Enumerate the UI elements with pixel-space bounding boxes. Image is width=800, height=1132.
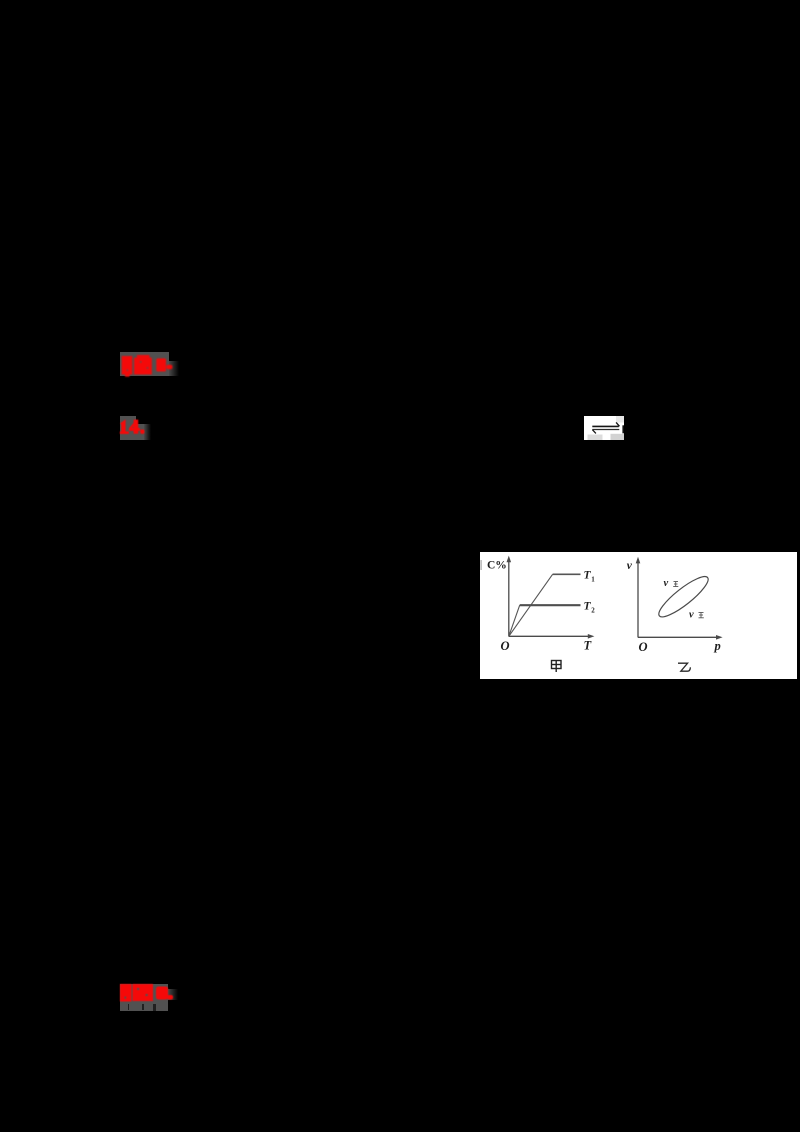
svg-text:T: T xyxy=(584,570,592,582)
curve T2 ramp xyxy=(509,605,520,636)
clipped character at right edge xyxy=(622,425,624,433)
letter C xyxy=(156,987,168,1000)
right chart y-axis xyxy=(637,561,639,638)
period xyxy=(167,995,173,1000)
white figure background xyxy=(480,552,797,679)
answer text 13 (red 答案:B.) xyxy=(118,350,178,380)
svg-text:v: v xyxy=(689,610,694,621)
left chart y-axis arrowhead xyxy=(507,556,512,563)
svg-text:2: 2 xyxy=(591,607,595,615)
svg-text:p: p xyxy=(714,639,721,653)
light gray corner patch xyxy=(616,416,624,423)
curve T2 plateau xyxy=(520,604,581,606)
right chart x-axis arrowhead xyxy=(716,635,723,640)
highlight tail question 14 xyxy=(144,424,151,440)
svg-text:T: T xyxy=(584,601,592,613)
white background of formula image xyxy=(584,416,624,440)
dark text marks in lower selection strip xyxy=(128,1004,130,1010)
equilibrium top arrow xyxy=(592,425,619,427)
left chart y-axis xyxy=(508,560,510,637)
char 案 blob xyxy=(133,984,154,1001)
char 答 blob xyxy=(122,356,133,375)
digit 1 xyxy=(120,419,125,433)
highlight tail answer 15 xyxy=(168,989,178,1000)
answer text 15 (red 答案:C.) xyxy=(118,980,180,1010)
char 案 blob xyxy=(134,358,152,375)
svg-text:1: 1 xyxy=(591,576,595,584)
question number 14 (red) xyxy=(118,416,150,438)
svg-text:v: v xyxy=(664,578,669,589)
figure image (two charts, white background) xyxy=(480,552,797,679)
highlight box answer 15 xyxy=(120,984,169,1011)
right chart y-axis arrowhead xyxy=(636,557,641,564)
svg-text:O: O xyxy=(639,640,648,654)
right chart x-axis xyxy=(638,636,719,638)
period xyxy=(140,429,144,434)
period xyxy=(166,365,172,370)
highlight tail answer 13 xyxy=(169,361,179,376)
curve T1 ramp xyxy=(509,574,553,636)
equilibrium bottom arrow xyxy=(592,429,619,431)
rate loop ellipse xyxy=(654,571,712,622)
equilibrium arrow formula fragment (white inline image) xyxy=(584,416,624,440)
left chart x-axis xyxy=(509,635,591,637)
svg-text:v: v xyxy=(627,560,633,572)
equilibrium bottom arrow barb xyxy=(592,430,596,434)
char 答 blob xyxy=(120,984,132,1002)
svg-text:O: O xyxy=(501,639,510,653)
curve T1 plateau xyxy=(553,573,581,575)
digit 4 xyxy=(134,420,139,434)
left chart x-axis arrowhead xyxy=(588,634,595,639)
highlight box answer 13 xyxy=(120,352,169,376)
caption 甲 xyxy=(552,661,562,673)
highlight box question 14 (left tall part) xyxy=(120,416,136,440)
equilibrium top arrow barb xyxy=(616,422,619,426)
highlight box question 14 (right lower part) xyxy=(136,424,144,440)
svg-text:C%: C% xyxy=(487,560,507,572)
stray gray tick at left edge xyxy=(480,560,481,570)
letter B xyxy=(156,358,166,371)
caption 乙 xyxy=(678,663,690,671)
bottom shadow blobs xyxy=(588,435,603,441)
